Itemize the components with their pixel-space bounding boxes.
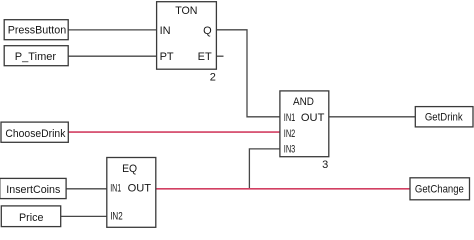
svg-text:ET: ET bbox=[198, 51, 212, 63]
svg-text:2: 2 bbox=[210, 71, 216, 83]
function block U3 AND gate bbox=[280, 91, 329, 157]
function block EQ comparator bbox=[107, 158, 156, 228]
wire EQ.OUT to GetChange (red) bbox=[156, 188, 410, 190]
svg-text:Price: Price bbox=[19, 212, 43, 224]
wire InsertCoins to EQ.IN1 bbox=[66, 188, 107, 190]
svg-text:EQ: EQ bbox=[122, 163, 137, 175]
svg-text:P_Timer: P_Timer bbox=[15, 51, 57, 63]
input variable box PressButton bbox=[4, 20, 68, 40]
svg-text:IN1: IN1 bbox=[284, 112, 296, 124]
wire TON.ET stub bbox=[216, 55, 223, 57]
svg-text:PT: PT bbox=[160, 51, 174, 63]
input variable box ChooseDrink bbox=[1, 122, 68, 142]
svg-text:OUT: OUT bbox=[301, 112, 325, 124]
svg-text:TON: TON bbox=[175, 5, 197, 17]
svg-text:IN1: IN1 bbox=[110, 182, 121, 194]
input variable box P_Timer bbox=[4, 46, 68, 66]
svg-text:GetDrink: GetDrink bbox=[425, 111, 463, 123]
svg-text:ChooseDrink: ChooseDrink bbox=[5, 128, 65, 140]
wire Price to EQ.IN2 bbox=[61, 215, 107, 217]
svg-text:IN3: IN3 bbox=[284, 144, 296, 156]
output variable box GetChange bbox=[410, 178, 470, 200]
svg-text:InsertCoins: InsertCoins bbox=[6, 184, 60, 196]
svg-text:OUT: OUT bbox=[128, 182, 152, 194]
wire ChooseDrink to AND.IN2 (red) bbox=[68, 131, 280, 133]
svg-text:PressButton: PressButton bbox=[8, 25, 67, 37]
svg-text:IN2: IN2 bbox=[110, 210, 123, 222]
svg-text:Q: Q bbox=[203, 25, 212, 37]
wire PressButton to TON.IN bbox=[68, 29, 156, 31]
wire AND.OUT to GetDrink bbox=[329, 116, 416, 118]
svg-text:3: 3 bbox=[322, 159, 328, 171]
wire EQ.OUT branch to AND.IN3 bbox=[249, 149, 280, 189]
input variable box InsertCoins bbox=[0, 178, 66, 198]
svg-text:GetChange: GetChange bbox=[415, 183, 464, 195]
function block U2 TON timer bbox=[157, 2, 217, 70]
svg-text:AND: AND bbox=[293, 96, 314, 108]
wire TON.Q to AND.IN1 bbox=[216, 30, 280, 117]
wire P_Timer to TON.PT bbox=[68, 55, 156, 57]
svg-text:IN2: IN2 bbox=[284, 128, 296, 140]
svg-text:IN: IN bbox=[160, 25, 171, 37]
output variable box GetDrink bbox=[415, 107, 473, 127]
input variable box Price bbox=[1, 206, 60, 227]
